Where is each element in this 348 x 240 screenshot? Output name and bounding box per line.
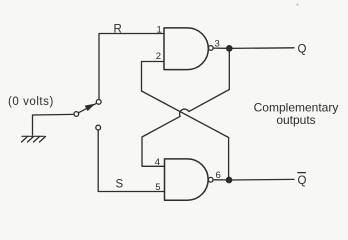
wire pin 6 output to junction xyxy=(213,179,226,181)
svg-text:3: 3 xyxy=(215,38,220,49)
bubble on gate U1 output xyxy=(208,46,213,51)
nand gate U2 (bottom, pins 4,5,6) xyxy=(165,159,209,200)
switch top contact circle xyxy=(96,100,101,105)
bubble on gate U2 output xyxy=(208,177,213,182)
svg-text:1: 1 xyxy=(157,25,162,36)
wire S (from switch bottom contact down and right to pin 5) xyxy=(98,130,164,192)
svg-text:5: 5 xyxy=(155,182,160,193)
wire diagonal A (pin2 vertical down-right to Q-bar junction) xyxy=(142,91,229,177)
switch bottom contact circle xyxy=(96,125,101,130)
switch blade with arrowhead xyxy=(78,103,96,113)
ground symbol xyxy=(22,136,46,142)
wire Q-bar output xyxy=(229,178,294,181)
wire R (from switch top contact up and right to pin 1) xyxy=(99,34,164,100)
label Complementary outputs xyxy=(254,101,339,128)
wire pin 3 output to junction xyxy=(213,47,227,49)
svg-text:6: 6 xyxy=(216,170,221,181)
wire Q output xyxy=(229,47,294,50)
switch pole contact circle xyxy=(74,112,79,117)
wire diagonal B with hop over A (Q junction down-left to pin 4) xyxy=(142,90,229,167)
svg-text:Q: Q xyxy=(298,44,307,56)
wire feedback from Q junction down xyxy=(228,51,230,90)
junction dot at Q-bar node xyxy=(226,177,231,182)
wire pin 2 feedback (gate1 input 2 to left vertical) xyxy=(142,62,165,92)
overline of Q-bar label xyxy=(298,172,306,174)
svg-text:outputs: outputs xyxy=(276,113,315,127)
wire switch pole to ground xyxy=(33,114,75,135)
svg-text:(0 volts): (0 volts) xyxy=(8,96,54,108)
scan speck top right xyxy=(296,3,298,5)
svg-text:2: 2 xyxy=(156,51,161,62)
svg-text:Q: Q xyxy=(298,175,307,187)
svg-text:R: R xyxy=(114,24,122,36)
svg-text:S: S xyxy=(116,179,124,191)
svg-text:4: 4 xyxy=(155,157,160,168)
nand gate U1 (top, pins 1,2,3) xyxy=(164,28,208,70)
junction dot at Q node xyxy=(227,46,232,51)
